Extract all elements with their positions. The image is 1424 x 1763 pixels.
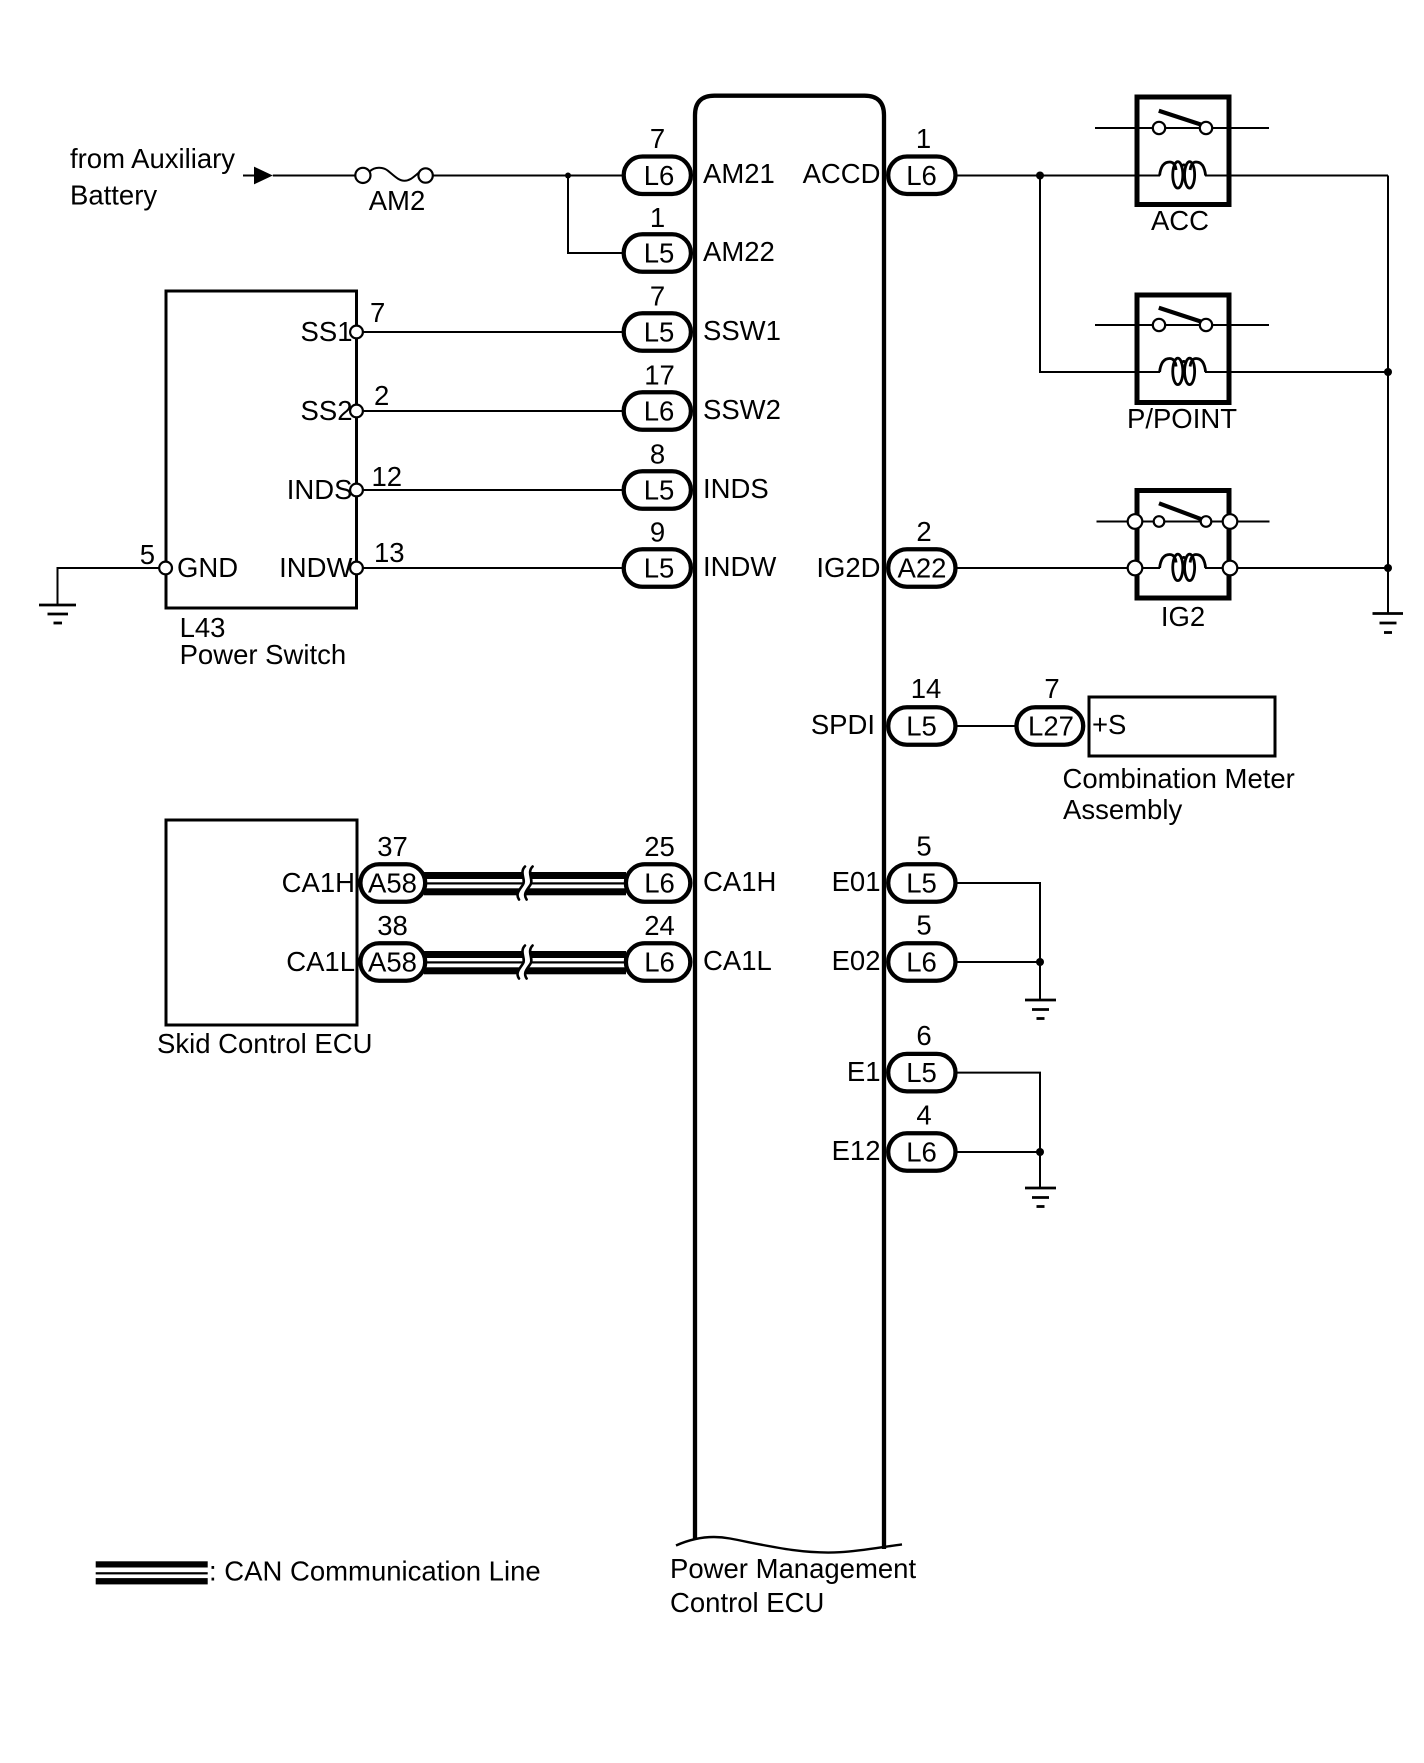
svg-text:CA1H: CA1H: [282, 867, 355, 898]
ground symbol at power switch: [39, 605, 76, 623]
svg-text:CA1L: CA1L: [703, 945, 772, 976]
connector oval L5 SPDI: [888, 707, 955, 745]
pin 13 INDW circle: [350, 562, 363, 575]
pin 5 GND circle: [159, 562, 172, 575]
junction dot AM2 branch: [565, 173, 571, 179]
svg-text:Power Management: Power Management: [670, 1553, 916, 1584]
svg-text:5: 5: [916, 831, 931, 862]
svg-text:INDS: INDS: [287, 474, 353, 505]
junction dot ACCD branch: [1036, 172, 1044, 180]
wire arrow to fuse: [273, 175, 356, 177]
connector oval L6 E12: [888, 1133, 955, 1171]
CAN break CA1H: [521, 866, 528, 899]
CAN line CA1H: [424, 872, 626, 895]
svg-text:+S: +S: [1092, 709, 1126, 740]
right bus wire: [1387, 176, 1389, 614]
svg-text:25: 25: [644, 831, 675, 862]
svg-text:L6: L6: [644, 160, 675, 191]
svg-text:AM2: AM2: [369, 185, 426, 216]
svg-text:from Auxiliary: from Auxiliary: [70, 143, 235, 174]
connector oval L5 INDS: [624, 471, 691, 509]
svg-text:A22: A22: [898, 553, 947, 584]
svg-text:9: 9: [650, 517, 665, 548]
svg-text:L5: L5: [906, 868, 937, 899]
svg-text:L5: L5: [644, 475, 675, 506]
svg-text:ACC: ACC: [1151, 205, 1209, 236]
svg-text:L5: L5: [906, 1057, 937, 1088]
relay P/POINT switch contact left: [1153, 319, 1165, 331]
svg-text:L6: L6: [906, 1137, 937, 1168]
svg-text:SS1: SS1: [301, 316, 353, 347]
svg-text:5: 5: [140, 539, 155, 570]
connector oval A58 pin38: [360, 943, 425, 981]
ECU outline: [695, 96, 884, 1549]
connector oval L5 E1: [888, 1054, 955, 1092]
svg-text:L5: L5: [644, 238, 675, 269]
svg-text:38: 38: [377, 910, 408, 941]
connector oval L5 SSW1: [624, 313, 691, 351]
connector oval L6 AM21: [624, 157, 691, 195]
CAN line CA1L: [424, 951, 626, 974]
svg-text:L6: L6: [644, 947, 675, 978]
relay ACC box: [1137, 97, 1229, 205]
svg-text:L5: L5: [906, 711, 937, 742]
junction dot IG2 right: [1384, 564, 1392, 572]
pin 2 SS2 circle: [350, 405, 363, 418]
svg-text:L6: L6: [906, 947, 937, 978]
wire INDW to INDW: [357, 567, 624, 569]
junction dot E12: [1036, 1148, 1044, 1156]
ground symbol E1-E12: [1025, 1188, 1056, 1207]
svg-text:7: 7: [650, 123, 665, 154]
arrow head: [254, 167, 273, 185]
svg-text:7: 7: [650, 281, 665, 312]
wire vertical branch to P/POINT: [1040, 176, 1160, 373]
junction dot E02: [1036, 958, 1044, 966]
svg-text:Skid Control ECU: Skid Control ECU: [157, 1028, 373, 1059]
skid control ECU box: [166, 820, 357, 1025]
wire ACC coil to right bus: [1205, 175, 1388, 177]
svg-text:L27: L27: [1028, 711, 1074, 742]
wire fuse to AM21: [433, 175, 624, 177]
relay IG2 switch wire: [1097, 521, 1270, 523]
wire IG2 coil to right bus: [1205, 567, 1388, 569]
fuse AM2 left circle: [355, 168, 370, 183]
svg-text:14: 14: [911, 673, 942, 704]
relay P/POINT switch wire: [1095, 324, 1269, 326]
svg-text:1: 1: [916, 123, 931, 154]
power switch L43 box: [166, 291, 357, 608]
svg-text:SSW1: SSW1: [703, 315, 781, 346]
svg-text:INDW: INDW: [703, 551, 776, 582]
connector oval L6 pin25: [626, 864, 690, 902]
svg-text:IG2: IG2: [1161, 601, 1205, 632]
svg-text:INDS: INDS: [703, 473, 769, 504]
connector oval L5 AM22: [624, 234, 691, 272]
svg-text:SS2: SS2: [301, 395, 353, 426]
pin 7 SS1 circle: [350, 326, 363, 339]
relay IG2 switch contact right: [1201, 516, 1212, 527]
svg-text:L6: L6: [906, 160, 937, 191]
relay P/POINT switch contact right: [1200, 319, 1212, 331]
svg-text:AM22: AM22: [703, 236, 775, 267]
relay P/POINT box: [1137, 295, 1229, 403]
svg-text:Control ECU: Control ECU: [670, 1587, 824, 1618]
relay ACC switch blade: [1159, 111, 1202, 125]
svg-text:37: 37: [377, 831, 408, 862]
relay IG2 coil: [1160, 554, 1206, 580]
svg-text:2: 2: [374, 380, 389, 411]
relay P/POINT coil: [1160, 358, 1206, 384]
wire branch to AM22: [568, 176, 624, 254]
wire E1: [957, 1073, 1041, 1187]
wire P/POINT coil to right bus: [1205, 371, 1388, 373]
relay IG2 box: [1137, 491, 1229, 599]
relay ACC switch contact right: [1200, 122, 1212, 134]
svg-text:: CAN Communication Line: : CAN Communication Line: [209, 1555, 541, 1586]
svg-text:E01: E01: [832, 866, 881, 897]
junction dot P/POINT right: [1384, 368, 1392, 376]
ECU bottom wave: [676, 1537, 902, 1553]
wire INDS to INDS: [357, 489, 624, 491]
relay ACC switch contact left: [1153, 122, 1165, 134]
ground symbol E01-E02: [1025, 1000, 1056, 1019]
wire IG2D to IG2 coil: [957, 567, 1161, 569]
svg-text:CA1H: CA1H: [703, 866, 776, 897]
svg-text:E02: E02: [832, 945, 881, 976]
wire from battery arrow stub: [243, 175, 256, 177]
svg-text:Assembly: Assembly: [1063, 794, 1182, 825]
svg-text:8: 8: [650, 439, 665, 470]
svg-text:CA1L: CA1L: [286, 946, 355, 977]
svg-text:INDW: INDW: [279, 552, 352, 583]
svg-text:24: 24: [644, 910, 675, 941]
wire E02: [957, 961, 1041, 963]
wire E01: [957, 883, 1041, 999]
svg-text:L5: L5: [644, 553, 675, 584]
svg-text:E12: E12: [832, 1135, 881, 1166]
relay IG2 edge terminal bottom-left: [1128, 561, 1143, 576]
svg-text:4: 4: [916, 1100, 931, 1131]
svg-text:Combination Meter: Combination Meter: [1063, 763, 1295, 794]
svg-text:1: 1: [650, 202, 665, 233]
connector oval L6 E02: [888, 943, 955, 981]
svg-text:SSW2: SSW2: [703, 394, 781, 425]
svg-text:GND: GND: [177, 552, 238, 583]
wire SS1 to SSW1: [357, 331, 624, 333]
relay IG2 switch blade: [1159, 503, 1201, 519]
relay IG2 edge terminal top-left: [1128, 514, 1143, 529]
svg-text:17: 17: [644, 360, 675, 391]
relay ACC switch wire: [1095, 127, 1269, 129]
svg-text:E1: E1: [847, 1056, 881, 1087]
svg-text:L5: L5: [644, 317, 675, 348]
connector oval A22 IG2D: [888, 549, 955, 587]
svg-text:IG2D: IG2D: [816, 552, 880, 583]
connector oval A58 pin37: [360, 864, 425, 902]
pin 12 INDS circle: [350, 484, 363, 497]
connector oval L5 E01: [888, 864, 955, 902]
connector oval L27: [1017, 707, 1084, 745]
svg-text:Battery: Battery: [70, 180, 157, 211]
svg-text:L6: L6: [644, 868, 675, 899]
connector oval L6 SSW2: [624, 392, 691, 430]
legend CAN symbol: [96, 1561, 208, 1584]
svg-text:13: 13: [374, 537, 405, 568]
fuse AM2 wavy element: [370, 168, 420, 181]
svg-text:SPDI: SPDI: [811, 709, 875, 740]
svg-text:ACCD: ACCD: [803, 158, 881, 189]
svg-text:7: 7: [1044, 673, 1059, 704]
svg-text:A58: A58: [368, 947, 417, 978]
svg-text:A58: A58: [368, 868, 417, 899]
svg-text:12: 12: [372, 461, 403, 492]
svg-text:6: 6: [916, 1020, 931, 1051]
connector oval L6 pin24: [626, 943, 690, 981]
relay ACC coil: [1160, 162, 1206, 188]
svg-text:7: 7: [370, 297, 385, 328]
combination meter box: [1089, 697, 1275, 756]
connector oval L6 ACCD: [888, 157, 955, 195]
wire SS2 to SSW2: [357, 410, 624, 412]
svg-text:P/POINT: P/POINT: [1127, 403, 1237, 434]
svg-text:Power Switch: Power Switch: [180, 639, 347, 670]
svg-text:5: 5: [916, 910, 931, 941]
relay P/POINT switch blade: [1159, 308, 1202, 322]
wire SPDI to L27: [957, 725, 1017, 727]
wire E12: [957, 1151, 1041, 1153]
relay IG2 edge terminal top-right: [1223, 514, 1238, 529]
svg-text:L6: L6: [644, 396, 675, 427]
wire GND to ground: [58, 568, 166, 605]
wire ACCD to ACC coil: [957, 175, 1161, 177]
ground symbol right bus: [1373, 614, 1404, 633]
fuse AM2 right circle: [418, 168, 432, 182]
relay IG2 switch contact left: [1154, 516, 1165, 527]
CAN break CA1L: [521, 945, 528, 978]
svg-text:AM21: AM21: [703, 158, 775, 189]
svg-text:2: 2: [916, 516, 931, 547]
relay IG2 edge terminal bottom-right: [1223, 561, 1238, 576]
connector oval L5 INDW: [624, 549, 691, 587]
